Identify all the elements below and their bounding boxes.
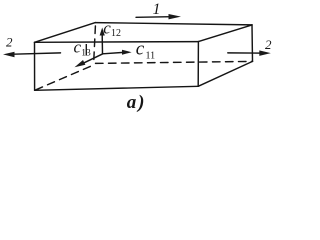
svg-text:2: 2 [265, 37, 272, 52]
svg-text:c13: c13 [74, 37, 91, 58]
svg-text:2: 2 [6, 34, 13, 49]
svg-text:1: 1 [153, 1, 161, 18]
svg-text:c12: c12 [103, 19, 121, 39]
svg-text:a): a) [127, 92, 145, 113]
